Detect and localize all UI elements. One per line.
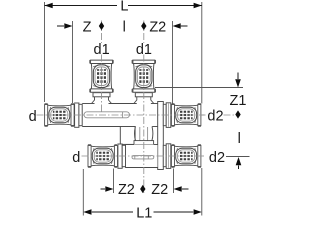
dim line L1 — [83, 209, 91, 215]
down branch — [136, 127, 152, 145]
svg-text:d2: d2 — [207, 108, 223, 124]
upper-right ring + flange — [163, 104, 166, 125]
connector d (upper left) — [44, 103, 74, 127]
ext line I bottom right — [226, 156, 250, 158]
svg-text:d: d — [72, 150, 80, 166]
svg-text:l: l — [123, 20, 126, 36]
ext line L right — [201, 2, 203, 104]
svg-text:Z2: Z2 — [149, 19, 166, 35]
svg-text:d1: d1 — [136, 42, 152, 58]
dim point d1 branch2 — [141, 22, 146, 30]
web box between bodies — [120, 127, 135, 145]
dim arrow Z2 top — [173, 23, 181, 29]
svg-text:L: L — [120, 0, 128, 14]
branch neck 2 — [137, 97, 151, 104]
svg-text:d1: d1 — [94, 42, 110, 58]
lower body slot — [132, 156, 154, 159]
ext line Z1 top — [155, 87, 243, 89]
svg-text:Z2: Z2 — [118, 182, 135, 198]
svg-text:d: d — [29, 109, 37, 125]
svg-text:Z2: Z2 — [151, 182, 168, 198]
svg-text:Z: Z — [83, 19, 92, 35]
ext line Z2 bottom left — [113, 169, 115, 194]
ext line L1 right — [201, 168, 203, 216]
leader d2 lower — [201, 155, 204, 157]
leader d2 upper — [201, 114, 206, 116]
dim arrow Z1 down — [237, 73, 239, 80]
lower body — [125, 145, 157, 168]
ext line L left — [44, 2, 46, 102]
ext line Z — [72, 21, 74, 103]
ext line Z2 top — [172, 21, 174, 104]
ext line Z2 bottom right — [173, 169, 175, 194]
lower-left flange + ring — [118, 144, 122, 168]
connector d1 (branch 1, vertical) — [89, 60, 114, 93]
centerline upper axis — [37, 114, 205, 116]
centerline branch 2 — [143, 21, 145, 44]
centerline lower axis — [82, 155, 205, 157]
dim point d2 upper — [235, 110, 240, 118]
upper-left flange + ring — [75, 103, 79, 127]
dim arrow Z — [57, 25, 64, 27]
dim point down-branch — [140, 185, 145, 193]
connector d1 (branch 2, vertical) — [132, 60, 157, 93]
svg-text:l: l — [238, 131, 241, 147]
connector d2 (upper right) — [171, 103, 201, 127]
svg-text:L1: L1 — [136, 205, 152, 220]
svg-text:d2: d2 — [209, 150, 225, 166]
upper main body — [82, 104, 157, 127]
branch neck 1 — [95, 97, 109, 104]
svg-text:Z1: Z1 — [230, 93, 247, 109]
connector d (lower left) — [88, 144, 118, 168]
dim arrow Z2 bottom-right — [174, 186, 182, 192]
connector d2 (lower right) — [171, 144, 201, 168]
dim line L — [45, 5, 118, 7]
dim arrow I up — [236, 157, 242, 165]
lower-right ring + flange — [163, 145, 166, 166]
centerline branch 1 — [101, 21, 103, 44]
dim arrow Z2 bottom-left — [101, 188, 106, 190]
right vertical riser block — [158, 102, 164, 170]
dim point d1 branch1 — [99, 22, 104, 30]
ext line L1 left — [82, 169, 84, 216]
body slot detail — [84, 112, 130, 118]
